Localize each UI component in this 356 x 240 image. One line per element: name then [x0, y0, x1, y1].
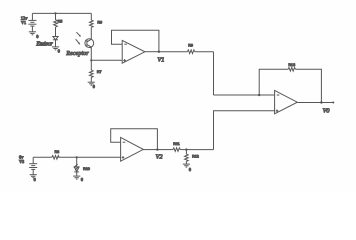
- resistor R13 (feedback): [288, 68, 295, 72]
- phototransistor Q1 Receptor: [85, 39, 94, 49]
- svg-text:R10: R10: [83, 167, 90, 171]
- battery V1 12v: [28, 13, 36, 31]
- svg-text:R12: R12: [192, 155, 199, 159]
- diode D1 Emisor: [53, 37, 58, 47]
- wire U3 output: [297, 102, 334, 104]
- svg-text:0: 0: [36, 34, 38, 39]
- wire V2 output to R11: [157, 149, 173, 151]
- op-amp V1: [122, 40, 145, 63]
- resistor R8: [52, 156, 59, 160]
- junction output/feedback: [320, 101, 322, 103]
- svg-text:R9: R9: [188, 44, 193, 48]
- svg-text:0: 0: [34, 177, 36, 182]
- junction V1 output: [158, 51, 160, 53]
- light arrow 2 (from D2): [75, 166, 79, 170]
- svg-text:R13: R13: [288, 63, 295, 67]
- wire R11 to node: [180, 149, 186, 151]
- svg-text:Emisor: Emisor: [35, 42, 53, 48]
- resistor R11: [173, 148, 180, 152]
- svg-text:V3: V3: [19, 159, 24, 164]
- wire emitter node to R7: [90, 60, 92, 70]
- ground (photodiode): [73, 176, 80, 179]
- resistor R5: [54, 20, 58, 27]
- junction top rail at R5 branch: [54, 12, 56, 14]
- wire V1 feedback loop: [112, 30, 159, 51]
- wire U3 feedback up: [259, 69, 288, 95]
- wire R5 branch from rail: [55, 13, 57, 19]
- wire V1 output to R9: [159, 51, 188, 53]
- wire U3 plus input: [214, 111, 275, 150]
- wire right to op-amp U3 minus input: [214, 94, 275, 96]
- wire R6 to phototransistor: [90, 27, 92, 39]
- wire R7 to ground: [90, 78, 92, 83]
- wire V2 output: [143, 149, 157, 151]
- wire transistor emitter down: [90, 47, 92, 60]
- wire R8 to op-amp V2 plus input: [58, 156, 120, 158]
- wire top rail: [32, 12, 91, 14]
- svg-text:R8: R8: [55, 150, 60, 154]
- svg-text:V0: V0: [323, 107, 331, 114]
- svg-text:0: 0: [81, 177, 83, 182]
- ground (Emisor): [52, 47, 59, 50]
- op-amp V2: [121, 137, 144, 161]
- svg-text:0: 0: [189, 167, 191, 172]
- ground (R12): [183, 164, 190, 167]
- svg-text:Receptor: Receptor: [65, 51, 89, 57]
- wire R12 node to plus-input column: [186, 149, 213, 151]
- resistor R12: [185, 154, 189, 161]
- wire V2 feedback loop: [111, 129, 158, 150]
- resistor R7: [90, 70, 94, 77]
- svg-text:0: 0: [93, 84, 95, 89]
- wire node down to R12: [185, 150, 187, 154]
- wire down to minus input level: [213, 52, 215, 95]
- light arrow 1 (from D2): [74, 164, 78, 168]
- wire R13 to output corner: [296, 69, 322, 102]
- svg-text:R5: R5: [58, 19, 63, 23]
- wire battery to R8: [33, 156, 52, 158]
- wire emitter node to op-amp V1 plus input: [91, 59, 122, 61]
- wire R6 branch from rail: [90, 13, 92, 20]
- op-amp U3: [275, 90, 298, 113]
- resistor R6: [90, 20, 94, 27]
- light arrow 1 (into Q1): [76, 32, 81, 37]
- svg-text:V1: V1: [21, 20, 26, 25]
- svg-text:R7: R7: [97, 70, 102, 74]
- junction emitter node: [90, 59, 92, 61]
- ground (battery 12v): [29, 32, 36, 35]
- svg-text:R11: R11: [173, 142, 180, 146]
- ground (battery 6v): [30, 175, 37, 178]
- resistor R9: [187, 50, 194, 54]
- junction V2 output: [156, 148, 158, 150]
- output terminal dot: [332, 102, 334, 104]
- wire V1 output: [145, 51, 159, 53]
- junction photodiode node: [76, 156, 78, 158]
- svg-text:R6: R6: [97, 20, 102, 24]
- wire R5 to diode: [55, 27, 57, 36]
- junction R12 node: [185, 148, 187, 150]
- wire R9 to corner: [195, 51, 214, 53]
- ground (R7): [88, 82, 95, 85]
- light arrow 2 (into Q1): [76, 39, 81, 44]
- svg-text:0: 0: [58, 49, 60, 54]
- wire R12 to ground: [185, 161, 187, 164]
- battery V3 6v: [29, 157, 37, 174]
- photodiode D2: [74, 157, 79, 176]
- svg-text:V2: V2: [156, 154, 164, 161]
- svg-text:V1: V1: [157, 57, 164, 64]
- junction U3 feedback node: [258, 94, 260, 96]
